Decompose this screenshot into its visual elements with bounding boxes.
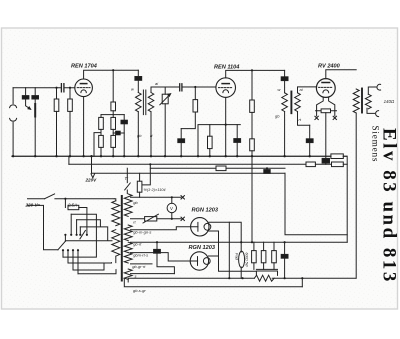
line B+ bbox=[131, 241, 348, 243]
earth terminal E bbox=[10, 118, 17, 121]
capacitor C-gridleak bbox=[180, 129, 182, 139]
resistor ballast bbox=[139, 173, 141, 181]
terminal x heater1 bbox=[181, 196, 184, 199]
resistor R-gridleak2 bbox=[194, 87, 196, 100]
resistor R-bias2a bbox=[112, 115, 114, 118]
coil secondary mid3 bbox=[124, 253, 132, 263]
wire antenna riser bbox=[12, 88, 14, 157]
tube RGN1203 V2 bbox=[190, 252, 208, 270]
tap gb-gr-rt bbox=[131, 263, 153, 265]
resistor R-drop bbox=[250, 139, 255, 151]
switch arrow antenna bbox=[26, 99, 31, 109]
choke field coil bbox=[240, 251, 242, 278]
svg-text:220V: 220V bbox=[85, 178, 98, 183]
wire grid tube3 bbox=[298, 87, 317, 93]
ballast switch lead bbox=[125, 168, 131, 193]
coil IF primary bbox=[136, 93, 142, 112]
svg-text:2,5A: 2,5A bbox=[67, 202, 77, 207]
wire RGN1 anode top bbox=[209, 222, 241, 251]
capacitor C-ant1 bbox=[25, 88, 27, 96]
svg-text:140Ω: 140Ω bbox=[384, 99, 395, 104]
svg-text:Elv 83 und 813: Elv 83 und 813 bbox=[379, 128, 400, 284]
svg-text:RV 2400: RV 2400 bbox=[318, 64, 341, 70]
tube REN1704 U1 bbox=[75, 79, 93, 97]
svg-text:gb-s-gr: gb-s-gr bbox=[133, 288, 146, 293]
svg-text:gb-m-gn-s: gb-m-gn-s bbox=[133, 229, 151, 234]
coil secondary mid1 bbox=[124, 225, 132, 241]
resistor R-grid2 bbox=[69, 88, 71, 99]
svg-text:gb-gr·rt: gb-gr·rt bbox=[132, 264, 146, 269]
svg-text:ai: ai bbox=[155, 81, 158, 86]
capacitor C-bias3 bbox=[309, 125, 311, 139]
resistor R-screen bbox=[251, 70, 253, 100]
arrow 220V tap bbox=[91, 174, 95, 178]
selector contact feeds bbox=[63, 214, 80, 273]
resistor R-bias1a bbox=[100, 115, 102, 118]
resistor bleeder3 bbox=[273, 242, 275, 250]
wire RGN2 anode bbox=[209, 255, 219, 257]
terminal x heater2 bbox=[181, 217, 184, 220]
resistor bleeder2 bbox=[263, 242, 265, 250]
svg-text:gbm-rt-s: gbm-rt-s bbox=[133, 253, 148, 258]
tap gbm-rt-s bbox=[131, 253, 198, 261]
svg-text:Fad: Fad bbox=[235, 253, 240, 261]
capacitor tuning bar bbox=[34, 99, 36, 104]
wire HT drop bbox=[285, 173, 347, 235]
voltmeter V bbox=[167, 203, 176, 212]
resistor R-bus2b bbox=[332, 162, 344, 167]
coil mains primary upper bbox=[112, 201, 120, 226]
svg-text:ai: ai bbox=[300, 87, 303, 92]
coil interstage secondary bbox=[295, 93, 301, 112]
wire grid line tube1 bbox=[13, 87, 75, 89]
line return bottom bbox=[128, 278, 356, 287]
transformer core mains bbox=[121, 196, 123, 281]
svg-text:gb: gb bbox=[137, 133, 142, 138]
resistor R-bias2b bbox=[111, 135, 116, 147]
capacitor series grid2 bbox=[180, 84, 182, 91]
core interstage bbox=[290, 92, 292, 114]
tube REN1104 U2 bbox=[216, 78, 236, 98]
wire bus4 left corner bbox=[91, 156, 93, 173]
core IF transformer bbox=[143, 90, 145, 115]
rheostat volume control bbox=[164, 87, 166, 94]
fuse branch bbox=[65, 199, 87, 235]
capacitor C-bus bbox=[266, 168, 268, 169]
coil secondary mid2 bbox=[124, 242, 132, 252]
coil output primary bbox=[353, 89, 359, 113]
tap gb-s-gr bbox=[124, 278, 302, 287]
wire cathode bias link bbox=[94, 133, 101, 157]
wire cathode tube3 bbox=[325, 113, 327, 159]
svg-text:gb·rt: gb·rt bbox=[133, 242, 142, 247]
resistor R-bias1b bbox=[99, 135, 104, 147]
selector mesh wires bbox=[63, 214, 116, 273]
wire output primary bottom long bbox=[355, 113, 357, 278]
coil output secondary bbox=[365, 94, 371, 109]
switch selector upper bbox=[80, 230, 86, 239]
wire plate tube3 bbox=[326, 70, 356, 79]
svg-text:Tr: Tr bbox=[125, 176, 129, 181]
wire cathode tube2 bbox=[225, 97, 227, 156]
filament legs tube3 bbox=[317, 97, 335, 111]
svg-text:RGN 1203: RGN 1203 bbox=[189, 245, 216, 251]
wire mains top bbox=[55, 198, 114, 200]
svg-text:RGN 1203: RGN 1203 bbox=[192, 208, 219, 214]
core output transformer bbox=[361, 89, 363, 113]
bus line 2 bbox=[69, 163, 347, 165]
wire bus3 feed bbox=[142, 164, 150, 185]
wire grid line tube2 bbox=[151, 87, 216, 93]
pin x left bbox=[315, 116, 318, 119]
svg-text:gb: gb bbox=[275, 114, 280, 119]
coil IF secondary bbox=[148, 93, 154, 112]
svg-text:gb: gb bbox=[133, 200, 138, 205]
bus line 3 bbox=[150, 167, 285, 169]
wire bias top bbox=[101, 114, 124, 116]
capacitor C-plate2 bbox=[284, 70, 286, 76]
svg-text:REN 1704: REN 1704 bbox=[71, 64, 98, 70]
tube RGN1203 V1 bbox=[191, 218, 209, 236]
capacitor series grid bbox=[61, 84, 64, 92]
pin x right bbox=[333, 116, 336, 119]
resistor R-cath2 bbox=[209, 125, 211, 137]
wire bus2 left corner bbox=[68, 156, 70, 164]
svg-text:220 V≈: 220 V≈ bbox=[25, 203, 41, 208]
svg-text:V: V bbox=[170, 206, 173, 211]
coil secondary heater bbox=[124, 194, 132, 216]
capacitor C-plate1 bbox=[137, 70, 139, 76]
resistor R-bus3 bbox=[216, 166, 226, 171]
antenna terminal A bbox=[10, 105, 17, 108]
capacitor C-cath2 bbox=[236, 125, 238, 139]
wire bias tube3 bbox=[298, 112, 310, 126]
capacitor C-bias bbox=[123, 115, 125, 121]
bus chassis line bbox=[12, 155, 347, 157]
tube RV2400 U3 bbox=[316, 79, 335, 98]
resistor filament RV2400 bbox=[316, 110, 337, 112]
svg-text:s: s bbox=[135, 273, 137, 278]
capacitor C-cath3 bbox=[322, 158, 329, 163]
wire crossover vertical bbox=[228, 222, 230, 278]
coil interstage primary bbox=[282, 93, 288, 112]
tap heater gb bbox=[131, 196, 182, 198]
resistor R-bus2a bbox=[306, 162, 315, 167]
tap s bbox=[131, 273, 175, 275]
capacitor C-filter bbox=[284, 242, 286, 254]
svg-text:½(1·2)×1104: ½(1·2)×1104 bbox=[144, 187, 167, 192]
switch mains bbox=[45, 194, 55, 199]
resistor bleeder1 bbox=[253, 242, 255, 250]
capacitor C-ant2 bbox=[34, 88, 36, 96]
speaker terminal top bbox=[368, 87, 376, 94]
coil mains primary lower bbox=[112, 230, 120, 257]
mains label wire bbox=[28, 198, 45, 200]
wire plate tube2 bbox=[226, 70, 285, 77]
svg-text:600Ω 5W: 600Ω 5W bbox=[245, 253, 249, 268]
wire RGN link bbox=[156, 242, 158, 249]
wire primary leads bbox=[114, 199, 116, 263]
bus line 4 bbox=[92, 172, 286, 174]
fuse 2,5A bbox=[68, 205, 79, 209]
wire mains pole2 bbox=[28, 205, 58, 249]
wire bus right drop bbox=[346, 156, 348, 242]
resistor hum zigzag bbox=[254, 275, 274, 281]
resistor R-plate-decouple bbox=[112, 70, 114, 102]
switch selector lower bbox=[58, 241, 66, 250]
wire plate tube1 bbox=[84, 70, 139, 79]
speaker terminal bottom bbox=[367, 108, 375, 113]
wire cathode net tube2 bbox=[198, 125, 240, 157]
coil secondary low bbox=[124, 269, 132, 279]
svg-text:REN 1104: REN 1104 bbox=[214, 65, 240, 71]
hum potentiometer bar bbox=[256, 269, 277, 275]
wire RGN1 anode bottom bbox=[209, 231, 257, 271]
tap gb-m-gn-s bbox=[131, 227, 199, 230]
capacitor C-bias2 bbox=[113, 132, 124, 134]
wire cathode tube1 bbox=[83, 97, 85, 157]
rheostat heater bbox=[145, 217, 157, 221]
resistor R-bus1 bbox=[331, 154, 343, 159]
tap heater rt bbox=[131, 218, 182, 220]
resistor R-grid1 bbox=[56, 88, 58, 99]
